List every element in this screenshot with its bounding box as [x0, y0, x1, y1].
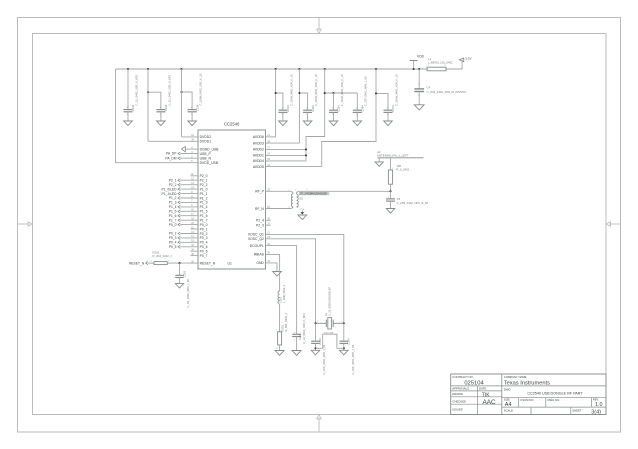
svg-text:X_32_000/10/30/30/12P: X_32_000/10/30/30/12P [328, 287, 332, 316]
inductor L1 ferrite bead [427, 57, 453, 71]
wire DGND_USB stub [185, 148, 198, 150]
wire C204 lead [307, 109, 309, 111]
capacitor C274 [384, 74, 399, 116]
svg-text:1: 1 [332, 108, 333, 110]
node crystal right [343, 322, 345, 324]
svg-text:P1_5: P1_5 [169, 210, 177, 214]
svg-text:P0_2: P0_2 [200, 232, 208, 236]
svg-text:AVDD6: AVDD6 [253, 135, 264, 139]
svg-text:C_100N_0402_X5R_K_10: C_100N_0402_X5R_K_10 [199, 73, 203, 105]
svg-text:COMPANY NAME: COMPANY NAME [504, 375, 527, 379]
wire balun output to antenna [298, 190, 390, 192]
wire C234 lead [160, 109, 162, 111]
antenna A2 [377, 150, 424, 158]
pin stub P0_7 [191, 255, 199, 257]
wire C244 to ground [127, 112, 129, 121]
node RESET junction [178, 262, 180, 264]
node crystal left [314, 322, 316, 324]
svg-text:AVDD3: AVDD3 [253, 141, 264, 145]
svg-text:P1_7: P1_7 [200, 218, 208, 222]
svg-text:VDD: VDD [417, 54, 425, 58]
svg-text:RF_P: RF_P [255, 190, 264, 194]
svg-text:DATE: DATE [479, 386, 486, 390]
svg-text:P1_1: P1_1 [200, 192, 208, 196]
ground balun [298, 215, 307, 220]
node C324 gnd junction [343, 347, 345, 349]
svg-text:PA_DM: PA_DM [165, 156, 176, 160]
svg-text:1: 1 [307, 189, 308, 191]
wire RF_N [266, 208, 292, 210]
wire RBIAS net upper [266, 254, 280, 291]
IC pin names right [248, 135, 265, 265]
svg-text:DVDD_USB: DVDD_USB [200, 161, 219, 165]
pin stub P0_1 [191, 228, 199, 230]
crystal X1 [316, 287, 344, 329]
wire DCOUPL net [266, 246, 297, 335]
svg-text:P0_5: P0_5 [169, 245, 177, 249]
wire C224 lead [191, 109, 193, 111]
resistor JP6 antenna jumper [388, 164, 409, 184]
capacitor C301 [292, 313, 306, 344]
svg-text:SHEET: SHEET [572, 409, 582, 413]
svg-text:L_2N0_0402_J: L_2N0_0402_J [282, 284, 286, 303]
svg-text:DCOUPL: DCOUPL [250, 244, 264, 248]
ground C4 [414, 105, 424, 110]
wire R201 to RESET_N pin [167, 262, 198, 264]
svg-text:DWG: DWG [504, 388, 511, 392]
svg-text:1.0: 1.0 [595, 402, 603, 408]
svg-text:1: 1 [306, 108, 307, 110]
svg-text:U1: U1 [228, 261, 232, 265]
ground C334 [311, 350, 320, 355]
capacitor C5 [386, 197, 428, 205]
svg-text:1: 1 [317, 321, 318, 323]
svg-text:JTI_2450BM15A0002E: JTI_2450BM15A0002E [299, 192, 327, 196]
svg-text:C_15P_0402_NP0_J_50: C_15P_0402_NP0_J_50 [351, 344, 355, 374]
wire C224 to ground [191, 112, 193, 121]
svg-text:R301: R301 [281, 325, 285, 332]
svg-text:C_2U2_0402_X5R_M_6P3VDC: C_2U2_0402_X5R_M_6P3VDC [427, 90, 467, 94]
wire DVDD_USB net [116, 69, 199, 163]
port PA_DM [165, 156, 198, 160]
svg-text:P1_0/LED: P1_0/LED [161, 187, 177, 191]
svg-text:CONTRACT NO.: CONTRACT NO. [452, 375, 473, 379]
svg-text:3(4): 3(4) [591, 409, 601, 415]
svg-text:P2_3: P2_3 [256, 223, 264, 227]
svg-text:P1_3: P1_3 [200, 201, 208, 205]
capacitor C254 [329, 74, 344, 116]
ground antenna [375, 162, 383, 166]
capacitor C4 [414, 84, 466, 97]
wire crystal left to C334 [315, 323, 317, 341]
capacitor C324 [340, 338, 355, 375]
IC pin numbers right [267, 135, 270, 263]
svg-text:1: 1 [191, 107, 192, 109]
ground C301 [292, 351, 301, 356]
svg-text:P1_7: P1_7 [169, 218, 177, 222]
svg-text:DVDD2: DVDD2 [200, 135, 212, 139]
svg-text:ANTENNA_IFA_1_LEFT: ANTENNA_IFA_1_LEFT [377, 154, 409, 158]
svg-text:P1_4: P1_4 [200, 205, 208, 209]
pin stub P2_0 [191, 175, 199, 177]
svg-text:C334: C334 [318, 338, 322, 345]
svg-text:R_2K2_0402_J: R_2K2_0402_J [153, 254, 173, 258]
title block [451, 374, 606, 415]
svg-text:APPROVALS: APPROVALS [452, 386, 469, 390]
wire rail to bead [446, 68, 462, 70]
svg-text:R_56K_0402_F: R_56K_0402_F [284, 312, 288, 331]
svg-text:CHECKED: CHECKED [452, 400, 466, 404]
svg-text:AVDD4: AVDD4 [253, 159, 264, 163]
svg-text:SCALE: SCALE [504, 409, 513, 413]
svg-text:Texas Instruments: Texas Instruments [504, 381, 550, 387]
wire JP6 to RF line [390, 184, 392, 191]
wire tap C254 C264 [325, 92, 358, 94]
wire C274 lead [387, 109, 389, 111]
svg-text:P1_6: P1_6 [200, 214, 208, 218]
port 3.3V arrow [459, 58, 464, 62]
svg-text:P1_2: P1_2 [169, 196, 177, 200]
capacitor C234 [156, 74, 171, 115]
svg-text:P2_2: P2_2 [169, 183, 177, 187]
svg-text:1: 1 [387, 108, 388, 110]
svg-text:P1_1/LED: P1_1/LED [161, 192, 177, 196]
svg-text:1: 1 [282, 108, 283, 110]
svg-text:1: 1 [295, 189, 296, 191]
svg-text:P0_6: P0_6 [200, 249, 208, 253]
svg-text:C291: C291 [183, 270, 187, 277]
wire C5 lead [390, 191, 392, 199]
svg-text:RESET_N: RESET_N [200, 261, 216, 265]
wire antenna ground leg [378, 158, 380, 162]
svg-text:P1_5: P1_5 [200, 210, 208, 214]
wire R301 to ground [279, 345, 281, 351]
svg-text:P2_2: P2_2 [200, 183, 208, 187]
svg-text:C4: C4 [427, 85, 431, 89]
port P0_0 [169, 223, 198, 227]
wire tap C204 [299, 93, 307, 110]
svg-text:CC2540: CC2540 [224, 121, 240, 126]
svg-text:C_2P5_0402_NP0_B_50: C_2P5_0402_NP0_B_50 [397, 201, 429, 205]
wire crystal right to C324 [343, 323, 345, 341]
svg-text:P2_1: P2_1 [200, 178, 208, 182]
svg-text:GND: GND [256, 261, 264, 265]
svg-text:C324: C324 [347, 338, 351, 345]
svg-text:XOSC_Q1: XOSC_Q1 [248, 233, 264, 237]
capacitor C264 [353, 76, 368, 116]
wire DVDD2 net [181, 69, 183, 137]
pin stub P0_6 [191, 250, 199, 252]
ground C264 [353, 121, 362, 126]
wire XOSC_Q1 net [266, 234, 344, 323]
resistor R201 [151, 251, 173, 265]
svg-text:RBIAS: RBIAS [254, 253, 265, 257]
port RESET_N [129, 261, 148, 265]
svg-text:2: 2 [276, 348, 277, 350]
wire C254 to ground [333, 112, 335, 121]
ground C224 [188, 121, 197, 126]
svg-text:1: 1 [356, 108, 357, 110]
svg-text:P0_2: P0_2 [169, 232, 177, 236]
wire C264 lead [356, 109, 358, 111]
wire C204 to ground [307, 112, 309, 121]
svg-text:C_100N_0402_X5R_K_10: C_100N_0402_X5R_K_10 [314, 74, 318, 106]
frame arrow top [317, 18, 321, 34]
wire RESET cap lead [179, 263, 181, 275]
IC pin numbers left [191, 135, 194, 263]
ground DGND_USB sideways [182, 146, 186, 151]
wire RESET to R201 [148, 262, 154, 264]
wire AVDD3 drop [298, 69, 300, 143]
svg-text:C_100N_0402_X5R_K_10: C_100N_0402_X5R_K_10 [340, 74, 344, 106]
svg-text:C_1U_0402_X5R_K_6P3: C_1U_0402_X5R_K_6P3 [134, 74, 138, 105]
wire antenna feed [390, 158, 392, 170]
svg-text:DVDD1: DVDD1 [200, 140, 212, 144]
port P1_4 [169, 205, 198, 209]
wire tap C274 [376, 93, 388, 110]
svg-text:CC2540 USB DONGLE RF PART: CC2540 USB DONGLE RF PART [527, 391, 583, 395]
frame arrow right [606, 222, 620, 226]
wire DVDD1 net [147, 69, 149, 141]
svg-text:C301: C301 [298, 333, 302, 340]
svg-text:32M_XGND: 32M_XGND [324, 332, 334, 334]
svg-text:1: 1 [294, 332, 295, 334]
wire C214 lead [282, 109, 284, 111]
ground C234 [157, 121, 166, 126]
svg-text:P1_2: P1_2 [200, 196, 208, 200]
power symbol VDD [410, 54, 425, 69]
port P1_1/LED [161, 192, 198, 196]
inductor L301 [278, 284, 286, 304]
port P1_0/LED [161, 187, 198, 191]
wire AVDD2 pin [266, 148, 307, 150]
wire C274 to ground [387, 112, 389, 121]
port P0_4 [169, 241, 198, 245]
capacitor C214 [278, 74, 293, 116]
svg-text:A4: A4 [505, 402, 512, 408]
node antenna RF junction [389, 190, 391, 192]
svg-text:2: 2 [294, 339, 295, 341]
border frame inner [33, 34, 607, 415]
capacitor C204 [303, 74, 318, 116]
svg-text:1: 1 [160, 107, 161, 109]
wire tap C234 [148, 92, 161, 109]
ground C214 [279, 121, 288, 126]
svg-text:P0_1: P0_1 [200, 227, 208, 231]
wire VDD rail [116, 68, 428, 70]
wire C324 to ground [343, 343, 345, 350]
resistor R301 [276, 312, 288, 349]
svg-text:2: 2 [341, 321, 342, 323]
svg-text:P0_5: P0_5 [200, 245, 208, 249]
svg-text:DWG NO.: DWG NO. [548, 398, 561, 402]
svg-text:P0_4: P0_4 [200, 241, 208, 245]
label B1 highlighted [299, 192, 329, 195]
svg-text:2: 2 [289, 207, 290, 209]
svg-text:P1_3: P1_3 [169, 201, 177, 205]
port P1_7 [169, 218, 198, 222]
svg-text:1: 1 [127, 107, 128, 109]
wire tap C214 [276, 93, 283, 110]
frame arrow left [18, 222, 33, 226]
svg-text:1: 1 [289, 189, 290, 191]
svg-text:AVDD5: AVDD5 [253, 165, 264, 169]
pin stub P2_4 [266, 219, 271, 221]
svg-text:P0_0: P0_0 [200, 223, 208, 227]
wire C301 to ground [296, 337, 298, 351]
svg-text:XOSC_Q2: XOSC_Q2 [248, 237, 264, 241]
svg-text:L301: L301 [278, 297, 282, 303]
wire 3.3V riser [461, 60, 463, 69]
wire XOSC_Q2 net [266, 239, 316, 323]
svg-text:P2_0: P2_0 [200, 174, 208, 178]
svg-text:DGND_USB: DGND_USB [200, 147, 220, 151]
svg-text:P2_1: P2_1 [169, 178, 177, 182]
wire RF_P [266, 190, 292, 192]
svg-text:X1: X1 [324, 312, 328, 316]
wire C214 to ground [282, 112, 284, 121]
node C334 gnd junction [314, 347, 316, 349]
wire C234 to ground [160, 112, 162, 121]
wire C244 lead [127, 69, 129, 110]
svg-text:ISSUED: ISSUED [452, 407, 462, 411]
port P1_2 [169, 196, 198, 200]
svg-text:P1_0: P1_0 [200, 187, 208, 191]
svg-text:AAC: AAC [483, 399, 497, 406]
svg-text:AVDD2: AVDD2 [253, 148, 264, 152]
frame arrow bottom [317, 415, 321, 432]
title block text [452, 375, 602, 416]
wire AVDD6 drop [275, 69, 277, 137]
svg-text:L_BEAD_100_0402: L_BEAD_100_0402 [428, 61, 453, 65]
IC pin names left [200, 135, 220, 265]
svg-text:C_100N_0402_X5R_K_10: C_100N_0402_X5R_K_10 [394, 74, 398, 106]
port P1_6 [169, 214, 198, 218]
svg-text:1: 1 [276, 329, 277, 331]
svg-text:PA_DP: PA_DP [166, 152, 177, 156]
balun ground pins 2,3,4 [299, 209, 305, 214]
svg-text:USB_N: USB_N [200, 156, 212, 160]
ground C244 [124, 121, 133, 126]
node rail junctions [127, 68, 129, 70]
svg-text:TIK: TIK [482, 393, 490, 399]
port P0_5 [169, 245, 198, 249]
wire C334 to ground [315, 343, 317, 350]
ground C5 [386, 209, 395, 214]
svg-text:P0_3: P0_3 [200, 236, 208, 240]
wire C5 to ground [390, 201, 392, 208]
wire AVDD5 pin [266, 166, 322, 168]
wire GND pin [266, 263, 278, 272]
svg-text:C_15P_0402_NP0_J_50: C_15P_0402_NP0_J_50 [322, 344, 326, 374]
ground C291 [175, 284, 183, 288]
svg-text:P1_6: P1_6 [169, 214, 177, 218]
op-amp U1 CC2540 IC body [198, 130, 266, 269]
port P1_3 [169, 201, 198, 205]
wire C4 to ground [418, 92, 420, 105]
ground U1 GND [273, 272, 282, 277]
pin stub P2_3 [266, 224, 271, 226]
wire C291 to ground [179, 278, 181, 284]
port P0_3 [169, 236, 198, 240]
ground C324 [340, 350, 349, 355]
wire C4 lead [418, 69, 420, 89]
wire tap C224 [182, 92, 193, 110]
svg-text:P1_4: P1_4 [169, 205, 177, 209]
port P2_1 [169, 178, 198, 182]
capacitor C334 [311, 338, 326, 375]
svg-text:DRAWN: DRAWN [452, 392, 462, 396]
capacitor C224 [188, 73, 203, 115]
svg-text:R_0_0402: R_0_0402 [396, 167, 409, 171]
svg-text:C_1N_0402_NP0_J_50: C_1N_0402_NP0_J_50 [186, 279, 190, 308]
svg-text:P0_4: P0_4 [169, 241, 177, 245]
transformer B1 balun windings [289, 189, 299, 208]
port P2_2 [169, 183, 198, 187]
ground C274 [384, 121, 393, 126]
svg-text:C_100N_0402_X5R_K_10: C_100N_0402_X5R_K_10 [289, 74, 293, 106]
wire AVDD5 drop [322, 69, 376, 167]
wire C264 to ground [356, 112, 358, 121]
svg-text:1: 1 [388, 197, 389, 199]
svg-text:P0_0: P0_0 [169, 223, 177, 227]
svg-text:USB_P: USB_P [200, 152, 212, 156]
svg-text:C_22P_0402_NP0_J_50: C_22P_0402_NP0_J_50 [364, 76, 368, 106]
port P1_5 [169, 210, 198, 214]
svg-text:P0_7: P0_7 [200, 254, 208, 258]
capacitor C291 [175, 270, 190, 307]
port P0_2 [169, 232, 198, 236]
wire AVDD4 pin [266, 160, 307, 162]
port PA_DP [166, 152, 198, 156]
ground R301 [275, 351, 284, 356]
svg-text:RESET_N: RESET_N [129, 261, 145, 265]
capacitor C244 [124, 74, 139, 115]
svg-text:AVDD1: AVDD1 [253, 154, 264, 158]
svg-text:C_1U_0402_X5R_K_6P3: C_1U_0402_X5R_K_6P3 [167, 74, 171, 105]
svg-text:RF_N: RF_N [255, 207, 264, 211]
svg-text:3.3V: 3.3V [465, 57, 471, 61]
wire AVDD1 pin [266, 154, 307, 156]
svg-text:FSCM NO.: FSCM NO. [521, 398, 535, 402]
svg-text:C_1U_0402_X5R_K_6P3: C_1U_0402_X5R_K_6P3 [302, 313, 306, 344]
wire C254 lead [333, 109, 335, 111]
ground C254 [329, 121, 338, 126]
svg-text:P0_3: P0_3 [169, 236, 177, 240]
wire AVDD2/1/4 drop [306, 69, 325, 161]
wire L301 to R301 [279, 304, 281, 332]
ground C204 [303, 121, 312, 126]
svg-text:P2_4: P2_4 [256, 219, 264, 223]
wire xtal ground link [316, 334, 344, 348]
svg-text:B1: B1 [300, 196, 304, 200]
